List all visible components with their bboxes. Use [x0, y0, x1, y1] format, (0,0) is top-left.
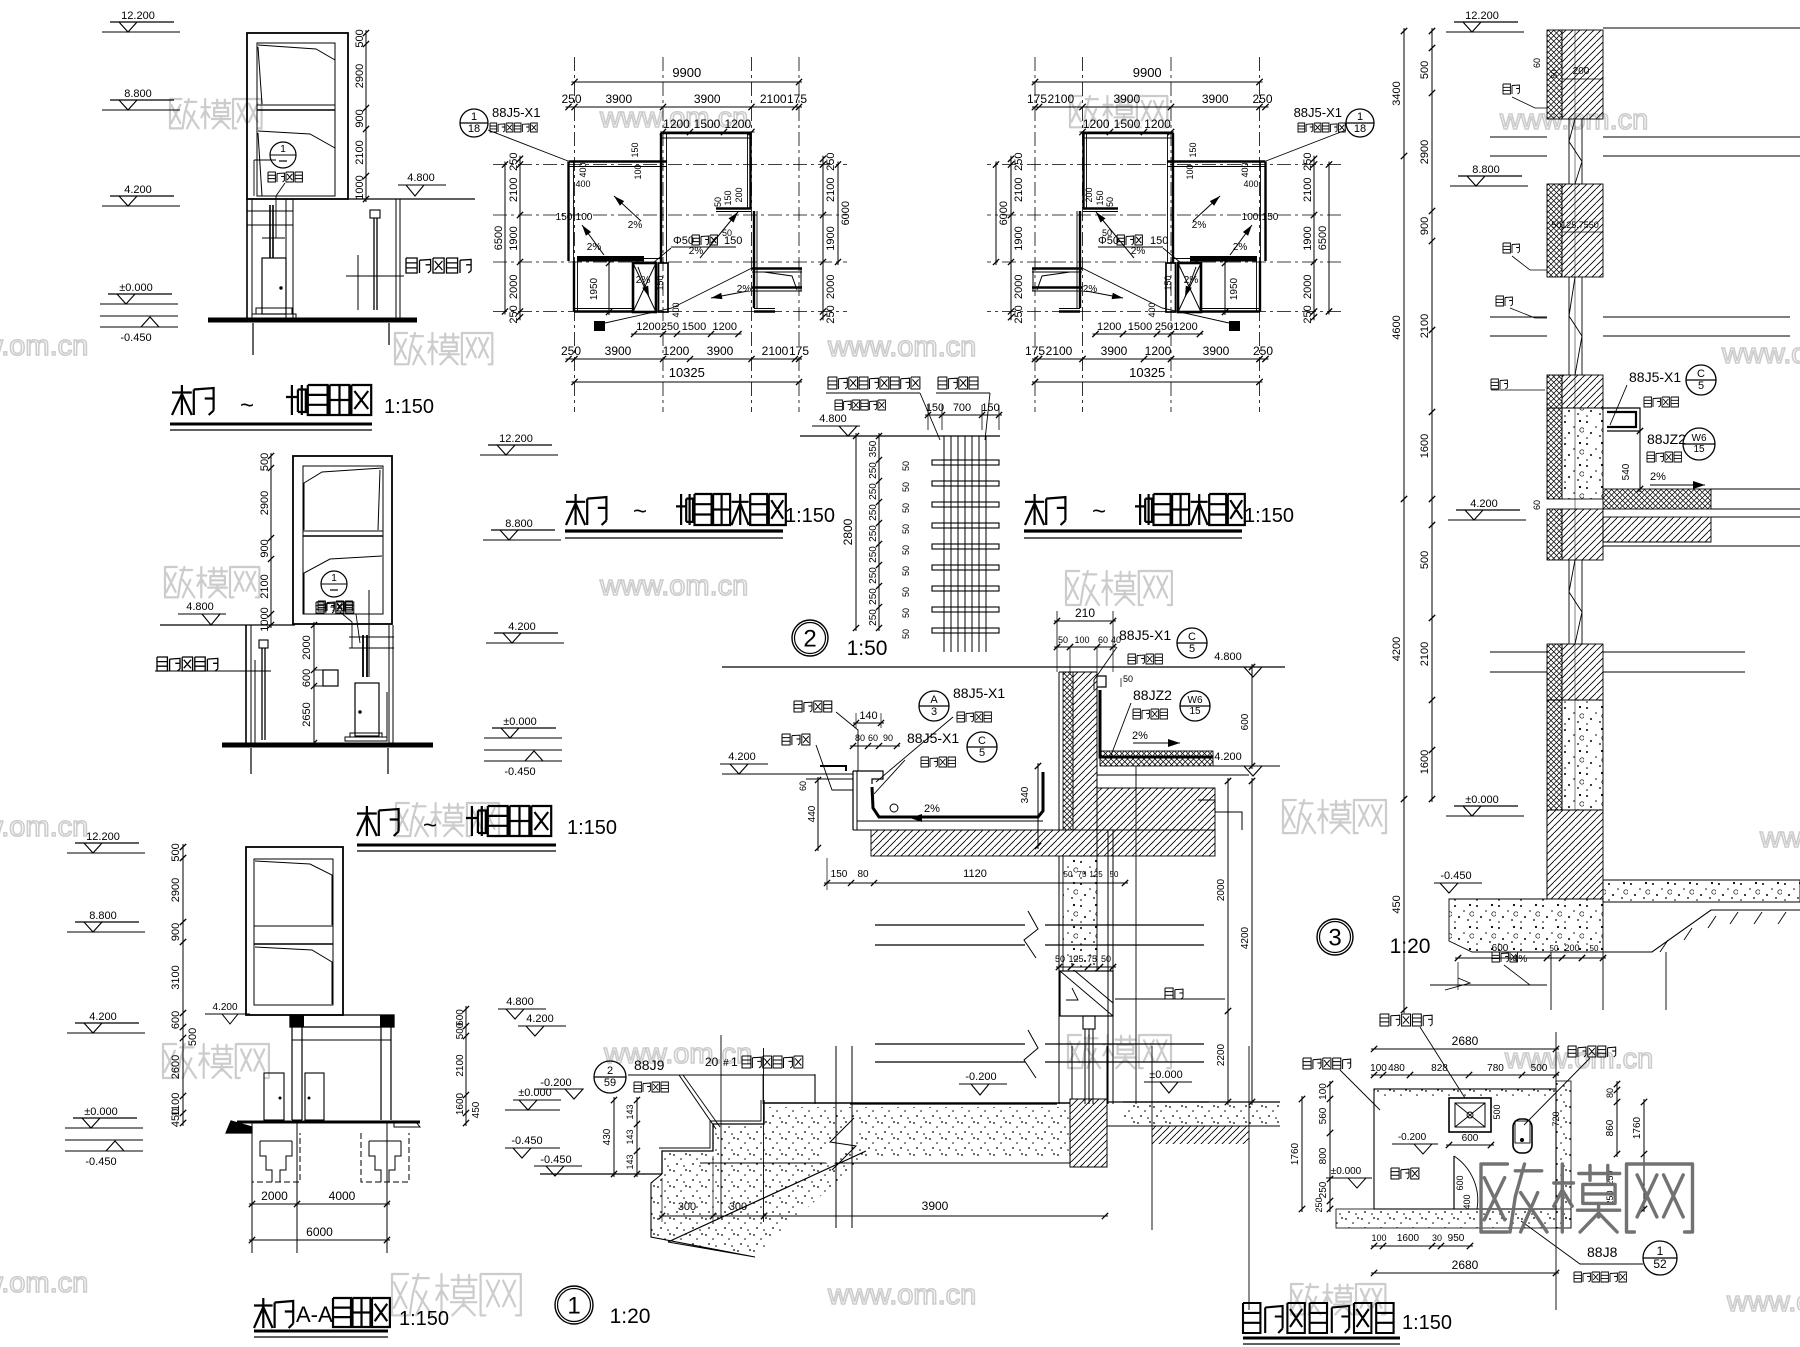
svg-text:2100: 2100 — [1013, 178, 1025, 202]
svg-text:300: 300 — [678, 1201, 696, 1213]
svg-text:2%: 2% — [737, 284, 752, 295]
svg-text:5: 5 — [1189, 643, 1195, 655]
svg-text:175: 175 — [1025, 344, 1045, 358]
svg-text:600: 600 — [1492, 943, 1509, 954]
svg-text:4200: 4200 — [1240, 926, 1251, 949]
svg-text:52: 52 — [1653, 1257, 1667, 1271]
svg-text:-0.450: -0.450 — [1440, 870, 1471, 882]
svg-text:2000: 2000 — [1216, 878, 1227, 901]
svg-text:50: 50 — [722, 228, 732, 238]
svg-text:88J5-X1: 88J5-X1 — [492, 105, 540, 120]
svg-text:150: 150 — [1163, 275, 1173, 290]
svg-text:2900: 2900 — [354, 64, 366, 88]
svg-text:1950: 1950 — [1229, 277, 1240, 300]
svg-text:2000: 2000 — [825, 275, 837, 299]
svg-text:600: 600 — [1462, 1133, 1479, 1144]
svg-text:600: 600 — [1240, 713, 1251, 730]
svg-text:125: 125 — [1068, 954, 1083, 964]
svg-text:2100: 2100 — [354, 140, 366, 164]
svg-text:±0.000: ±0.000 — [1149, 1069, 1183, 1081]
svg-text:-0.450: -0.450 — [85, 1156, 116, 1168]
svg-text:±0.000: ±0.000 — [518, 1087, 552, 1099]
svg-text:1000: 1000 — [354, 175, 366, 199]
svg-text:50: 50 — [1105, 197, 1115, 207]
svg-text:50: 50 — [901, 566, 911, 576]
svg-text:~: ~ — [1092, 498, 1106, 525]
svg-text:6000: 6000 — [306, 1225, 333, 1239]
svg-text:9900: 9900 — [1133, 65, 1162, 80]
svg-text:C: C — [1188, 631, 1196, 643]
svg-text:W6: W6 — [1692, 433, 1707, 444]
svg-text:100: 100 — [1074, 635, 1089, 645]
svg-text:250: 250 — [868, 567, 879, 584]
svg-text:3900: 3900 — [1113, 92, 1140, 106]
svg-text:18: 18 — [468, 123, 480, 135]
svg-text:100: 100 — [633, 164, 643, 179]
svg-text:1200: 1200 — [663, 344, 690, 358]
svg-text:50: 50 — [1101, 954, 1111, 964]
svg-text:100: 100 — [1370, 1063, 1387, 1074]
svg-text:1:150: 1:150 — [1244, 505, 1294, 527]
svg-text:50: 50 — [1055, 954, 1065, 964]
svg-text:350: 350 — [868, 440, 879, 457]
svg-text:50: 50 — [1123, 674, 1133, 684]
svg-text:860: 860 — [1605, 1119, 1616, 1136]
svg-text:3900: 3900 — [1202, 92, 1229, 106]
svg-text:2900: 2900 — [259, 491, 271, 515]
svg-text:50: 50 — [1550, 69, 1559, 78]
svg-text:150: 150 — [723, 190, 733, 205]
svg-text:-0.200: -0.200 — [965, 1071, 996, 1083]
svg-text:50: 50 — [713, 197, 723, 207]
svg-text:250: 250 — [868, 609, 879, 626]
svg-text:2100: 2100 — [1419, 642, 1431, 666]
svg-text:1: 1 — [1357, 111, 1363, 123]
svg-text:2%: 2% — [1192, 220, 1207, 231]
svg-text:50: 50 — [901, 482, 911, 492]
svg-text:450: 450 — [471, 1101, 482, 1118]
svg-text:4.200: 4.200 — [508, 621, 536, 633]
svg-text:2100: 2100 — [1302, 178, 1314, 202]
svg-text:400: 400 — [578, 162, 588, 177]
svg-text:2%: 2% — [689, 246, 704, 257]
svg-text:1:150: 1:150 — [785, 505, 835, 527]
svg-text:50: 50 — [901, 545, 911, 555]
svg-text:4000: 4000 — [329, 1189, 356, 1203]
svg-text:-0.450: -0.450 — [540, 1154, 571, 1166]
svg-text:8.800: 8.800 — [124, 88, 152, 100]
svg-text:2000: 2000 — [1013, 275, 1025, 299]
svg-text:250: 250 — [825, 153, 837, 171]
svg-text:2900: 2900 — [1419, 140, 1431, 164]
svg-text:-0.450: -0.450 — [511, 1135, 542, 1147]
svg-text:2000: 2000 — [261, 1189, 288, 1203]
svg-text:250: 250 — [661, 321, 679, 333]
svg-text:80: 80 — [855, 733, 865, 743]
svg-text:3100: 3100 — [170, 965, 182, 989]
svg-text:2100: 2100 — [1419, 314, 1431, 338]
svg-text:500: 500 — [1492, 1104, 1502, 1119]
svg-text:175: 175 — [789, 344, 809, 358]
svg-text:150: 150 — [1095, 190, 1105, 205]
svg-text:200: 200 — [734, 187, 744, 202]
svg-text:400: 400 — [1462, 1194, 1472, 1209]
svg-text:1200: 1200 — [1173, 321, 1197, 333]
svg-text:500: 500 — [170, 843, 182, 861]
svg-text:4.800: 4.800 — [819, 413, 847, 425]
svg-text:600: 600 — [1455, 1175, 1465, 1190]
svg-text:3900: 3900 — [1203, 344, 1230, 358]
svg-text:9900: 9900 — [672, 65, 701, 80]
svg-text:500: 500 — [354, 29, 366, 47]
svg-text:2000: 2000 — [508, 275, 520, 299]
svg-text:4600: 4600 — [1391, 315, 1403, 339]
svg-text:560: 560 — [1318, 1107, 1329, 1124]
svg-text:1600: 1600 — [1419, 434, 1431, 458]
svg-text:75: 75 — [1087, 954, 1097, 964]
svg-text:www.om.cn: www.om.cn — [1726, 1286, 1800, 1318]
svg-text:250: 250 — [825, 305, 837, 323]
svg-text:1: 1 — [731, 1055, 738, 1069]
svg-text:143: 143 — [625, 1154, 635, 1169]
svg-text:±0.000: ±0.000 — [1465, 794, 1499, 806]
svg-text:400: 400 — [575, 179, 590, 189]
svg-text:Φ50: Φ50 — [673, 235, 694, 247]
svg-text:500: 500 — [187, 1028, 199, 1046]
svg-text:15: 15 — [1693, 444, 1705, 455]
svg-text:400: 400 — [671, 302, 681, 317]
svg-text:100: 100 — [1318, 1083, 1329, 1100]
svg-text:250: 250 — [868, 588, 879, 605]
svg-text:1500: 1500 — [682, 321, 706, 333]
svg-text:50: 50 — [901, 608, 911, 618]
svg-text:3400: 3400 — [1391, 81, 1403, 105]
svg-text:250: 250 — [868, 525, 879, 542]
svg-text:W6: W6 — [1188, 695, 1203, 706]
svg-text:www.om.cn: www.om.cn — [0, 811, 88, 843]
svg-text:3900: 3900 — [605, 344, 632, 358]
svg-text:80: 80 — [857, 869, 869, 880]
svg-text:250: 250 — [1302, 153, 1314, 171]
svg-text:20: 20 — [705, 1055, 719, 1069]
svg-text:900: 900 — [259, 539, 271, 557]
svg-text:1200: 1200 — [724, 117, 751, 131]
svg-text:250: 250 — [508, 305, 520, 323]
svg-text:88JZ2: 88JZ2 — [1133, 687, 1172, 703]
svg-text:3: 3 — [931, 706, 937, 718]
svg-text:50: 50 — [1110, 870, 1119, 879]
svg-text:1:150: 1:150 — [1402, 1312, 1452, 1334]
svg-text:88J9: 88J9 — [634, 1057, 665, 1073]
svg-text:50: 50 — [901, 503, 911, 513]
svg-text:143: 143 — [625, 1129, 635, 1144]
svg-text:±0.000: ±0.000 — [84, 1106, 118, 1118]
svg-text:88J5-X1: 88J5-X1 — [1119, 627, 1171, 643]
svg-text:175: 175 — [787, 92, 807, 106]
svg-text:500: 500 — [455, 1022, 466, 1039]
svg-text:4.200: 4.200 — [728, 751, 756, 763]
svg-text:50: 50 — [1590, 944, 1599, 953]
svg-text:1600: 1600 — [1397, 1233, 1420, 1244]
svg-text:A-A: A-A — [296, 1302, 333, 1327]
svg-text:828: 828 — [1431, 1063, 1448, 1074]
svg-text:2600: 2600 — [170, 1055, 182, 1079]
svg-text:www.om.cn: www.om.cn — [0, 1267, 88, 1299]
svg-text:2100: 2100 — [760, 92, 787, 106]
svg-text:1:20: 1:20 — [1390, 935, 1431, 958]
svg-text:1950: 1950 — [589, 277, 600, 300]
svg-text:150: 150 — [926, 402, 944, 414]
svg-text:250: 250 — [1013, 305, 1025, 323]
svg-text:2%: 2% — [587, 242, 602, 253]
svg-text:50: 50 — [901, 524, 911, 534]
svg-text:950: 950 — [1448, 1233, 1465, 1244]
svg-text:500: 500 — [1419, 61, 1431, 79]
svg-text:2%: 2% — [1184, 275, 1199, 286]
svg-text:100: 100 — [1185, 164, 1195, 179]
svg-text:2: 2 — [607, 1065, 613, 1077]
svg-text:1500: 1500 — [694, 117, 721, 131]
svg-text:1120: 1120 — [963, 868, 987, 880]
svg-text:±0.000: ±0.000 — [503, 716, 537, 728]
svg-text:50: 50 — [1058, 635, 1068, 645]
svg-text:800: 800 — [1318, 1147, 1329, 1164]
svg-text:12.200: 12.200 — [86, 831, 120, 843]
svg-text:440: 440 — [807, 805, 818, 822]
svg-text:4.200: 4.200 — [124, 184, 152, 196]
svg-text:-0.450: -0.450 — [120, 332, 151, 344]
svg-text:200: 200 — [1084, 187, 1094, 202]
svg-text:60: 60 — [1098, 635, 1108, 645]
svg-text:8.800: 8.800 — [505, 518, 533, 530]
svg-text:50: 50 — [1550, 944, 1559, 953]
svg-text:2000: 2000 — [1302, 275, 1314, 299]
svg-text:480: 480 — [1388, 1063, 1405, 1074]
svg-text:1900: 1900 — [1302, 226, 1314, 250]
svg-text:1:150: 1:150 — [384, 396, 434, 418]
svg-text:430: 430 — [602, 1128, 613, 1145]
svg-text:900: 900 — [1419, 217, 1431, 235]
svg-text:60: 60 — [868, 733, 878, 743]
svg-text:3900: 3900 — [694, 92, 721, 106]
svg-text:150: 150 — [1150, 235, 1168, 247]
svg-text:450: 450 — [1391, 895, 1403, 913]
svg-text:1:150: 1:150 — [567, 817, 617, 839]
svg-text:450: 450 — [170, 1109, 182, 1127]
svg-text:400: 400 — [1243, 179, 1258, 189]
svg-text:150: 150 — [655, 275, 665, 290]
svg-text:~: ~ — [633, 498, 647, 525]
svg-text:780: 780 — [1487, 1063, 1504, 1074]
svg-text:18: 18 — [1354, 123, 1366, 135]
svg-text:2650: 2650 — [301, 702, 313, 726]
svg-text:10325: 10325 — [669, 365, 705, 380]
svg-text:4.800: 4.800 — [407, 172, 435, 184]
svg-text:143: 143 — [625, 1104, 635, 1119]
svg-text:60: 60 — [1532, 58, 1542, 68]
svg-text:250: 250 — [508, 153, 520, 171]
svg-text:2: 2 — [803, 625, 816, 652]
svg-text:150: 150 — [630, 142, 640, 157]
svg-text:88J5-X1: 88J5-X1 — [1629, 369, 1681, 385]
svg-text:88J5-X1: 88J5-X1 — [907, 730, 959, 746]
svg-text:50: 50 — [901, 461, 911, 471]
svg-text:210: 210 — [1075, 606, 1095, 620]
svg-text:1200: 1200 — [663, 117, 690, 131]
svg-text:3900: 3900 — [1101, 344, 1128, 358]
svg-text:8.800: 8.800 — [89, 910, 117, 922]
svg-text:2%: 2% — [1132, 730, 1148, 742]
svg-text:www.om.cn: www.om.cn — [603, 1038, 752, 1070]
svg-text:50: 50 — [1102, 228, 1112, 238]
svg-text:1900: 1900 — [508, 226, 520, 250]
svg-text:2100: 2100 — [508, 178, 520, 202]
svg-text:C: C — [1697, 368, 1705, 380]
svg-text:250: 250 — [868, 504, 879, 521]
svg-text:150: 150 — [556, 212, 573, 223]
svg-text:2%: 2% — [1233, 242, 1248, 253]
svg-text:A: A — [930, 694, 938, 706]
svg-text:200: 200 — [1564, 943, 1579, 953]
svg-text:www.om.cn: www.om.cn — [827, 331, 976, 363]
svg-text:12.200: 12.200 — [121, 10, 155, 22]
svg-text:1500: 1500 — [1128, 321, 1152, 333]
svg-text:10325: 10325 — [1129, 365, 1165, 380]
svg-text:100: 100 — [1242, 212, 1259, 223]
svg-text:8.800: 8.800 — [1472, 164, 1500, 176]
svg-text:1: 1 — [567, 1292, 580, 1319]
svg-text:±0.000: ±0.000 — [119, 282, 153, 294]
svg-text:1600: 1600 — [455, 1092, 466, 1115]
svg-text:www.om.cn: www.om.cn — [1721, 338, 1800, 370]
svg-text:3900: 3900 — [707, 344, 734, 358]
svg-text:250: 250 — [868, 483, 879, 500]
svg-text:1200: 1200 — [636, 321, 660, 333]
svg-text:88J5-X1: 88J5-X1 — [953, 685, 1005, 701]
svg-text:3: 3 — [1328, 924, 1341, 951]
svg-text:4.800: 4.800 — [1214, 651, 1242, 663]
svg-text:250: 250 — [1318, 1181, 1329, 1198]
svg-text:2%: 2% — [1083, 284, 1098, 295]
svg-text:3900: 3900 — [605, 92, 632, 106]
svg-text:2680: 2680 — [1452, 1034, 1479, 1048]
svg-text:4.200: 4.200 — [1214, 751, 1242, 763]
svg-text:150: 150 — [1262, 212, 1279, 223]
svg-text:1760: 1760 — [1632, 1116, 1643, 1139]
svg-text:2200: 2200 — [1216, 1043, 1227, 1066]
svg-text:3900: 3900 — [922, 1199, 949, 1213]
svg-text:540: 540 — [1621, 463, 1632, 480]
svg-text:-0.200: -0.200 — [1398, 1132, 1427, 1143]
svg-text:1600: 1600 — [1419, 750, 1431, 774]
svg-text:250: 250 — [561, 92, 581, 106]
svg-text:50: 50 — [901, 587, 911, 597]
svg-text:4.800: 4.800 — [186, 601, 214, 613]
svg-text:250: 250 — [1013, 153, 1025, 171]
svg-text:100: 100 — [1371, 1233, 1386, 1243]
svg-text:4.200: 4.200 — [1470, 498, 1498, 510]
svg-text:250: 250 — [868, 546, 879, 563]
svg-text:1: 1 — [1657, 1244, 1664, 1258]
svg-text:300: 300 — [729, 1201, 747, 1213]
svg-text:6000: 6000 — [840, 201, 852, 225]
svg-text:5: 5 — [1698, 380, 1704, 392]
svg-text:900: 900 — [354, 109, 366, 127]
svg-text:250: 250 — [1314, 1197, 1324, 1212]
svg-text:4.200: 4.200 — [526, 1013, 554, 1025]
svg-text:4.800: 4.800 — [506, 996, 534, 1008]
svg-text:6500: 6500 — [493, 226, 505, 250]
svg-text:1: 1 — [280, 144, 286, 155]
svg-text:~: ~ — [423, 812, 437, 839]
svg-text:700: 700 — [953, 402, 971, 414]
svg-text:1900: 1900 — [1013, 226, 1025, 250]
svg-text:59: 59 — [604, 1077, 616, 1089]
svg-text:1760: 1760 — [1290, 1142, 1301, 1165]
svg-text:2%: 2% — [636, 275, 651, 286]
svg-text:2100: 2100 — [455, 1054, 466, 1077]
svg-text:1:150: 1:150 — [399, 1308, 449, 1330]
svg-text:100: 100 — [576, 212, 593, 223]
svg-text:4.200: 4.200 — [212, 1002, 237, 1013]
svg-text:2%: 2% — [628, 220, 643, 231]
svg-text:500: 500 — [259, 453, 271, 471]
svg-text:2%: 2% — [924, 803, 940, 815]
svg-text:60: 60 — [798, 781, 808, 791]
svg-text:1200: 1200 — [713, 321, 737, 333]
svg-text:www.om.cn: www.om.cn — [827, 1279, 976, 1311]
svg-text:2100: 2100 — [762, 344, 789, 358]
svg-text:2%: 2% — [1131, 246, 1146, 257]
svg-text:150: 150 — [831, 869, 848, 880]
svg-text:12.200: 12.200 — [1465, 10, 1499, 22]
svg-text:1000: 1000 — [259, 607, 271, 631]
svg-text:1:50: 1:50 — [847, 637, 888, 660]
svg-text:1:20: 1:20 — [610, 1305, 651, 1328]
svg-text:900: 900 — [170, 923, 182, 941]
svg-text:~: ~ — [240, 392, 254, 419]
svg-text:250: 250 — [1253, 344, 1273, 358]
svg-text:340: 340 — [1020, 786, 1031, 803]
svg-text:4.200: 4.200 — [89, 1011, 117, 1023]
svg-text:140: 140 — [859, 710, 877, 722]
svg-text:1: 1 — [331, 573, 337, 584]
svg-text:5: 5 — [979, 747, 985, 759]
svg-text:250: 250 — [1302, 305, 1314, 323]
svg-text:88J5-X1: 88J5-X1 — [1294, 105, 1342, 120]
svg-text:150: 150 — [981, 402, 999, 414]
svg-text:6000: 6000 — [998, 201, 1010, 225]
svg-text:2%: 2% — [1650, 471, 1666, 483]
svg-text:2100: 2100 — [1046, 344, 1073, 358]
svg-text:250: 250 — [1155, 321, 1173, 333]
svg-text:400: 400 — [1147, 302, 1157, 317]
svg-text:2900: 2900 — [170, 878, 182, 902]
svg-text:250: 250 — [1252, 92, 1272, 106]
svg-text:1500: 1500 — [1114, 117, 1141, 131]
svg-text:600: 600 — [301, 669, 313, 687]
svg-text:88JZ2: 88JZ2 — [1647, 431, 1686, 447]
svg-text:4200: 4200 — [1391, 637, 1403, 661]
svg-text:400: 400 — [1240, 162, 1250, 177]
svg-text:500: 500 — [1419, 551, 1431, 569]
svg-text:#: # — [723, 1058, 729, 1069]
svg-text:500: 500 — [1531, 1063, 1548, 1074]
svg-text:50: 50 — [901, 629, 911, 639]
svg-text:1200: 1200 — [1083, 117, 1110, 131]
svg-text:-0.450: -0.450 — [504, 766, 535, 778]
svg-text:www.om.cn: www.om.cn — [599, 570, 748, 602]
